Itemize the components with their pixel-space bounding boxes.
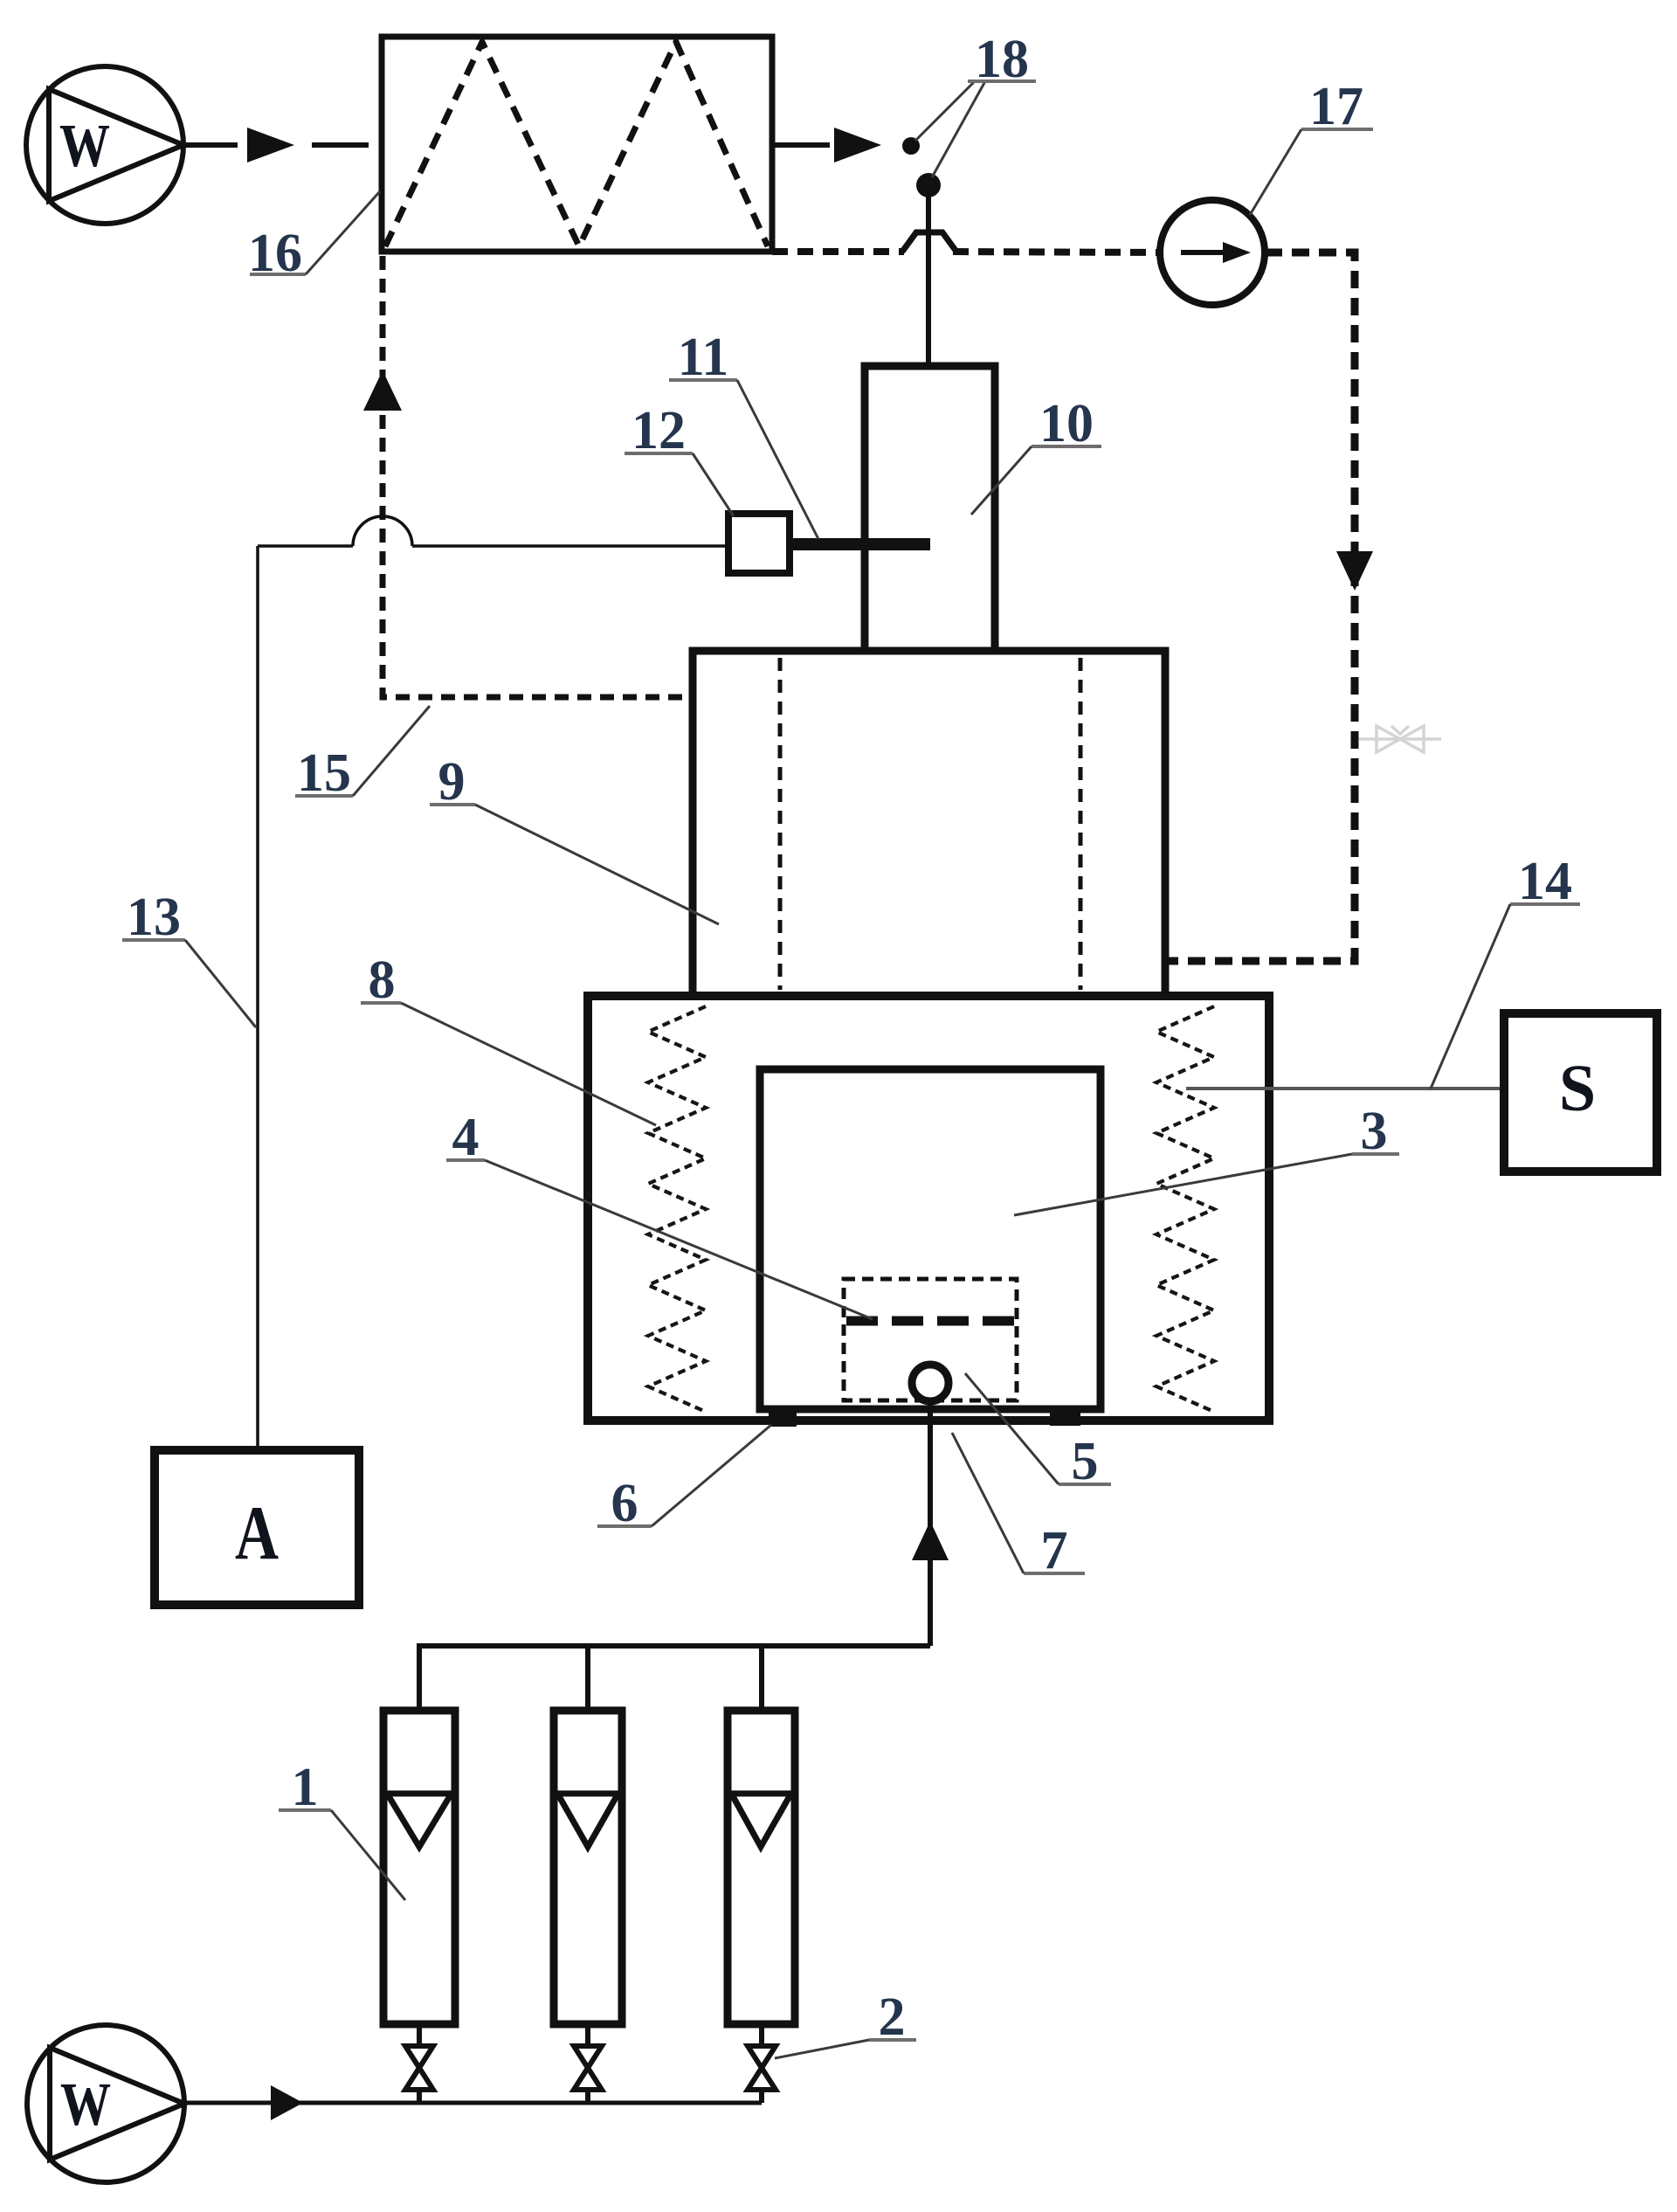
dashed wire heat exchanger to flow meter 17 with hop bbox=[772, 252, 1160, 252]
svg-text:3: 3 bbox=[1361, 1102, 1388, 1161]
vessel 9 bbox=[693, 651, 1165, 997]
wire node 18 down to tube 10 bbox=[926, 185, 931, 366]
wire heat exchanger out with arrow bbox=[772, 142, 830, 148]
svg-text:15: 15 bbox=[297, 743, 351, 803]
pump W1 bbox=[26, 66, 183, 224]
svg-text:9: 9 bbox=[438, 752, 466, 812]
rotameter 1 bbox=[383, 1711, 795, 2024]
label 17 bbox=[1250, 77, 1373, 215]
svg-text:12: 12 bbox=[631, 401, 686, 460]
label 9 bbox=[430, 752, 719, 924]
label 4 bbox=[446, 1108, 873, 1319]
feed wire from header up into furnace bbox=[928, 1401, 933, 1646]
label 11 bbox=[669, 328, 818, 539]
svg-text:8: 8 bbox=[369, 950, 396, 1010]
svg-text:5: 5 bbox=[1072, 1432, 1099, 1491]
bottom supply wire bbox=[179, 2101, 762, 2105]
support foot 6 left bbox=[769, 1409, 797, 1427]
label 5 bbox=[965, 1373, 1111, 1491]
svg-text:17: 17 bbox=[1309, 77, 1363, 136]
label 12 bbox=[625, 401, 734, 516]
gas header wire bbox=[419, 1646, 930, 1711]
dashed box 4 bbox=[844, 1279, 1017, 1400]
pump W2 bbox=[27, 2025, 184, 2182]
dashed wire flow meter 17 to vessel 9 bbox=[1165, 252, 1355, 961]
furnace 8 bbox=[588, 996, 1269, 1421]
burner nozzle 7 bbox=[912, 1365, 949, 1401]
thermocouple box S bbox=[1504, 1013, 1657, 1172]
support foot 6 right bbox=[1050, 1409, 1080, 1426]
svg-text:4: 4 bbox=[452, 1108, 480, 1167]
rotameter floats bbox=[387, 1794, 791, 1847]
flow arrow up on dashed wire 15 bbox=[363, 370, 402, 411]
wire to thermocouple S bbox=[1186, 1087, 1504, 1090]
dashed wire 15 (heat exchanger down to vessel 9) bbox=[383, 256, 693, 697]
svg-text:11: 11 bbox=[678, 328, 729, 387]
label 13 bbox=[122, 888, 256, 1027]
label 14 bbox=[1431, 852, 1580, 1089]
box 12 bbox=[728, 514, 790, 573]
label 6 bbox=[597, 1425, 771, 1533]
svg-text:S: S bbox=[1559, 1052, 1596, 1125]
faint valve on dashed wire bbox=[1359, 726, 1441, 752]
label 15 bbox=[295, 706, 430, 803]
label 8 bbox=[361, 950, 656, 1125]
flow arrow down on dashed wire bbox=[1336, 551, 1373, 591]
svg-text:6: 6 bbox=[611, 1474, 638, 1533]
svg-text:1: 1 bbox=[292, 1758, 319, 1817]
label 10 bbox=[971, 394, 1101, 515]
heating coil left bbox=[648, 1006, 706, 1412]
chamber 3 bbox=[760, 1069, 1101, 1409]
svg-text:W: W bbox=[59, 113, 110, 180]
label 2 bbox=[775, 1987, 916, 2058]
valve 2 set bbox=[405, 2024, 776, 2103]
svg-text:2: 2 bbox=[879, 1987, 906, 2047]
heat exchanger 16 bbox=[382, 37, 772, 252]
svg-text:7: 7 bbox=[1041, 1521, 1068, 1580]
svg-text:14: 14 bbox=[1518, 852, 1572, 911]
label 16 bbox=[248, 191, 380, 283]
switch 18 contacts bbox=[902, 137, 920, 155]
label 1 bbox=[279, 1758, 405, 1900]
heating coil right bbox=[1156, 1006, 1214, 1412]
label 3 bbox=[1014, 1102, 1399, 1215]
svg-text:13: 13 bbox=[127, 888, 181, 947]
flow meter 17 bbox=[1160, 200, 1265, 305]
thin wire 13 horizontal with hop bbox=[258, 516, 728, 1450]
svg-text:W: W bbox=[60, 2071, 111, 2139]
label 18 bbox=[968, 30, 1036, 89]
svg-text:A: A bbox=[235, 1491, 279, 1576]
thick dashed lid 4 bbox=[846, 1317, 1014, 1326]
box A bbox=[155, 1450, 359, 1605]
tube 10 bbox=[865, 366, 995, 651]
rod 11 bbox=[790, 538, 930, 550]
vessel 9 inner dashed partitions bbox=[778, 658, 783, 990]
svg-text:10: 10 bbox=[1039, 394, 1094, 453]
label 7 bbox=[952, 1433, 1085, 1580]
wire pump W1 to heat exchanger 16 bbox=[183, 142, 238, 148]
